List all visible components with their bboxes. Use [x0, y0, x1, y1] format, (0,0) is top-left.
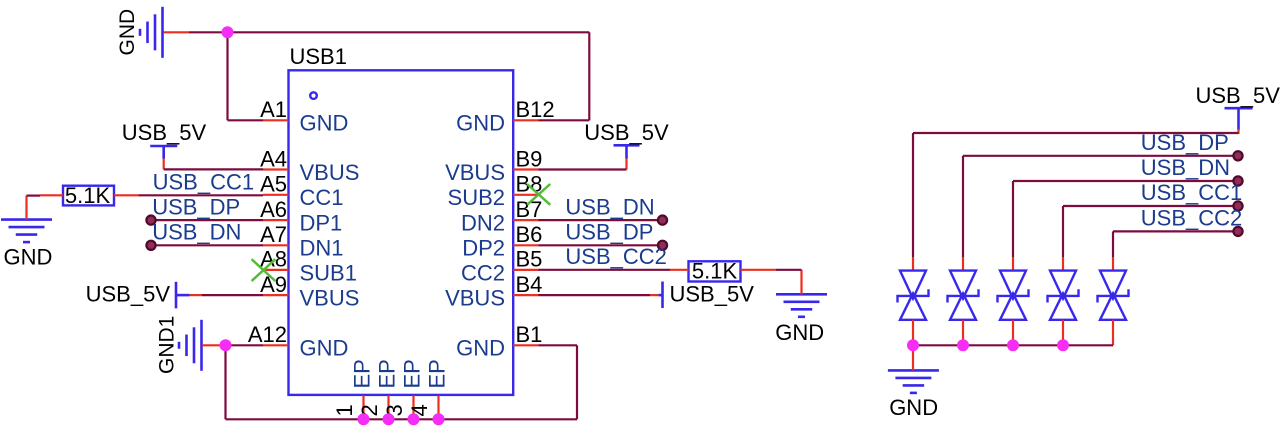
pin 4 (EP) bottom — [407, 359, 450, 419]
svg-text:GND: GND — [116, 9, 139, 56]
net label USB_DN (pin A7) — [152, 219, 241, 244]
junction EP pin 1 on bottom GND run — [358, 413, 370, 425]
wire 5.1K resistor to GND (right) — [776, 269, 802, 271]
wire GND1: junction to pin A12 — [226, 344, 264, 346]
no-connect X at pin A8 — [252, 259, 276, 281]
svg-text:GND: GND — [456, 111, 505, 136]
power USB_5V (above pin B9) — [584, 120, 669, 170]
junction on GND net at top — [222, 26, 234, 38]
wire USB_5V power to first TVS diode — [913, 133, 1239, 257]
svg-text:A5: A5 — [260, 172, 287, 197]
power USB_5V (top of TVS section) — [1196, 83, 1281, 134]
net label USB_DP (pin A6) — [152, 194, 240, 219]
junction TVS diode D3 bottom — [1007, 339, 1019, 351]
pin A4 (VBUS) left side — [260, 146, 359, 185]
pin B4 (VBUS) right side — [445, 272, 542, 311]
svg-text:GND: GND — [4, 245, 53, 270]
svg-text:USB_DN: USB_DN — [565, 194, 654, 219]
svg-text:DP2: DP2 — [462, 236, 505, 261]
pin B1 (GND) right side — [456, 322, 542, 361]
svg-text:GND1: GND1 — [156, 316, 179, 374]
TVS diode D5 (bidirectional) — [1098, 257, 1129, 345]
svg-text:USB_5V: USB_5V — [1196, 83, 1281, 108]
svg-text:SUB1: SUB1 — [300, 260, 357, 285]
svg-text:B12: B12 — [516, 97, 555, 122]
ground GND (right of right 5.1K resistor) — [775, 270, 827, 345]
svg-text:B4: B4 — [516, 272, 543, 297]
junction TVS diode D4 bottom — [1057, 339, 1069, 351]
svg-text:GND: GND — [456, 336, 505, 361]
svg-text:EP: EP — [400, 359, 425, 388]
wire GND net: ground symbol to junction, top horizontal run to B12 riser — [189, 31, 589, 33]
svg-text:CC1: CC1 — [300, 185, 344, 210]
wire GND net: junction down to pin A1 — [228, 32, 264, 120]
net label USB_DP (TVS section) — [1141, 130, 1229, 155]
wire GND1: junction down and along bottom to EP pins and B1 riser — [226, 345, 578, 419]
svg-text:USB_5V: USB_5V — [122, 120, 207, 145]
ground GND1 (at pin A12, rotated) — [156, 316, 226, 374]
junction TVS diode D1 bottom — [907, 339, 919, 351]
pin A12 (GND) left side — [248, 322, 349, 361]
junction at GND1 / pin A12 — [220, 339, 232, 351]
wire USB_DN to pin A7 (dangling end) — [146, 241, 263, 250]
svg-text:B7: B7 — [516, 197, 543, 222]
no-connect X at pin B8 — [527, 184, 550, 205]
net label USB_CC1 (TVS section) — [1141, 180, 1242, 205]
TVS diode D3 (bidirectional) — [998, 257, 1029, 345]
svg-text:A4: A4 — [260, 146, 287, 171]
net label USB_CC2 (pin B5) — [565, 244, 666, 269]
junction EP pin 4 on bottom GND run — [433, 413, 445, 425]
wire USB_CC2 stub to TVS diode 5 (dangling end) — [1113, 227, 1243, 257]
wire USB_5V to pin A4 — [164, 168, 263, 170]
ground GND (top-left, rotated) — [116, 7, 189, 58]
connector USB1 reference designator — [290, 44, 347, 69]
svg-text:EP: EP — [425, 359, 450, 388]
wire GND to 5.1K resistor (corner) — [27, 195, 41, 197]
pin B9 (VBUS) right side — [445, 146, 542, 185]
ground GND (below TVS diodes) — [888, 345, 939, 420]
svg-text:VBUS: VBUS — [445, 160, 505, 185]
pin 1 (EP) bottom — [332, 359, 375, 419]
junction EP pin 2 on bottom GND run — [383, 413, 395, 425]
svg-text:USB_DP: USB_DP — [1141, 130, 1229, 155]
svg-text:A12: A12 — [248, 322, 287, 347]
wire USB_DN to pin B7 (dangling end) — [539, 216, 668, 225]
pin A5 (CC1) left side — [260, 172, 343, 211]
svg-text:CC2: CC2 — [461, 260, 505, 285]
pin B8 (SUB2) right side — [448, 172, 543, 211]
svg-text:SUB2: SUB2 — [448, 185, 505, 210]
svg-text:A9: A9 — [260, 272, 287, 297]
pin B7 (DN2) right side — [461, 197, 542, 236]
pin A1 (GND) left side — [260, 97, 348, 136]
wire bottom GND run of TVS diodes — [913, 344, 1113, 346]
pin A8 (SUB1) left side — [260, 247, 357, 286]
pin B12 (GND) right side — [456, 97, 555, 136]
pin B5 (CC2) right side — [461, 247, 542, 286]
svg-text:B5: B5 — [516, 247, 543, 272]
svg-text:GND: GND — [300, 336, 349, 361]
resistor 5.1K (right, on CC2 / pin B5 net) — [670, 258, 776, 283]
svg-text:5.1K: 5.1K — [65, 183, 111, 208]
svg-text:B9: B9 — [516, 146, 543, 171]
wire GND net: pin B1 to bottom run — [539, 345, 578, 419]
svg-text:USB_CC1: USB_CC1 — [1141, 180, 1242, 205]
svg-text:EP: EP — [375, 359, 400, 388]
svg-text:GND: GND — [889, 395, 938, 420]
svg-text:GND: GND — [775, 320, 824, 345]
wire USB_5V to pin B4 — [539, 294, 651, 296]
svg-text:5.1K: 5.1K — [692, 258, 738, 283]
svg-text:1: 1 — [332, 404, 357, 416]
wire USB_CC2: pin B5 to 5.1K resistor — [539, 269, 671, 271]
svg-text:USB_5V: USB_5V — [86, 282, 171, 307]
wire USB_5V to pin B9 — [539, 168, 627, 170]
TVS diode D4 (bidirectional) — [1048, 257, 1079, 345]
wire USB_5V to pin A9 — [202, 294, 263, 296]
svg-text:A6: A6 — [260, 197, 287, 222]
pin 2 (EP) bottom — [357, 359, 400, 419]
svg-text:USB_CC2: USB_CC2 — [1141, 206, 1242, 231]
pin A6 (DP1) left side — [260, 197, 342, 236]
svg-text:USB_CC2: USB_CC2 — [565, 244, 666, 269]
svg-text:B1: B1 — [516, 322, 543, 347]
ground GND (left of 5.1K resistor) — [1, 196, 52, 270]
svg-text:DN1: DN1 — [300, 236, 344, 261]
net label USB_CC2 (TVS section) — [1141, 206, 1242, 231]
power USB_5V (above pin A4) — [122, 120, 207, 169]
svg-text:USB_DN: USB_DN — [152, 219, 241, 244]
connector USB1 body outline — [289, 70, 514, 395]
wire GND net: riser down to pin B12 — [539, 32, 590, 120]
svg-text:EP: EP — [350, 359, 375, 388]
pin 3 (EP) bottom — [382, 359, 425, 419]
wire USB_DP to pin A6 (dangling end) — [146, 216, 263, 225]
svg-text:USB_DP: USB_DP — [152, 194, 240, 219]
svg-text:USB_DP: USB_DP — [565, 219, 653, 244]
svg-text:VBUS: VBUS — [300, 286, 360, 311]
wire USB_DP to pin B6 (dangling end) — [539, 241, 668, 250]
wire USB_CC1: 5.1K resistor to pin A5 — [139, 194, 264, 196]
svg-text:A1: A1 — [260, 97, 287, 122]
power USB_5V (at pin B4, bar left of text) — [650, 281, 754, 308]
wire USB_CC1 stub to TVS diode 4 (dangling end) — [1063, 201, 1243, 257]
pin A7 (DN1) left side — [260, 222, 343, 261]
net label USB_DN (pin B7) — [565, 194, 654, 219]
net label USB_CC1 (pin A5) — [153, 169, 254, 194]
TVS diode D2 (bidirectional) — [948, 257, 979, 345]
net label USB_DP (pin B6) — [565, 219, 653, 244]
svg-text:USB1: USB1 — [290, 44, 347, 69]
wire USB_DN stub to TVS diode 3 (dangling end) — [1013, 176, 1243, 257]
svg-text:USB_5V: USB_5V — [584, 120, 669, 145]
svg-text:DP1: DP1 — [300, 211, 343, 236]
svg-text:VBUS: VBUS — [445, 286, 505, 311]
power USB_5V (at pin A9, bar right of text) — [86, 282, 202, 309]
wire USB_DP stub to TVS diode 2 (dangling end) — [963, 151, 1243, 257]
svg-text:B6: B6 — [516, 222, 543, 247]
svg-text:A7: A7 — [260, 222, 287, 247]
svg-text:USB_DN: USB_DN — [1141, 155, 1230, 180]
TVS diode D1 (bidirectional) — [898, 257, 929, 345]
svg-text:USB_5V: USB_5V — [670, 281, 755, 306]
svg-text:DN2: DN2 — [461, 211, 505, 236]
resistor 5.1K (left, on USB_CC1 / pin A5 net) — [40, 183, 139, 208]
svg-text:VBUS: VBUS — [300, 160, 360, 185]
pin B6 (DP2) right side — [462, 222, 542, 261]
net label USB_DN (TVS section) — [1141, 155, 1230, 180]
junction EP pin 3 on bottom GND run — [408, 413, 420, 425]
svg-text:GND: GND — [300, 111, 349, 136]
svg-text:USB_CC1: USB_CC1 — [153, 169, 254, 194]
pin A9 (VBUS) left side — [260, 272, 359, 311]
junction TVS diode D2 bottom — [957, 339, 969, 351]
